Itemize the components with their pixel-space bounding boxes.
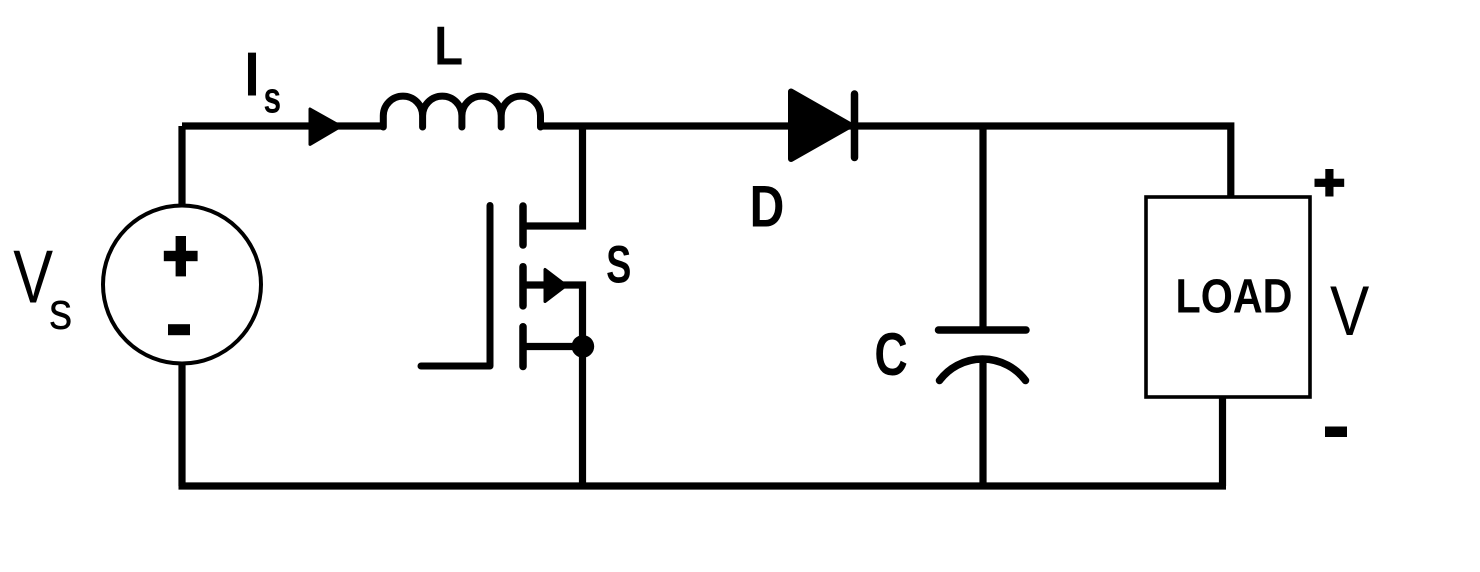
svg-text:S: S: [606, 234, 631, 294]
svg-text:I: I: [244, 41, 260, 109]
svg-text:s: s: [49, 281, 72, 340]
svg-text:V: V: [1330, 271, 1370, 350]
svg-text:L: L: [434, 15, 463, 76]
svg-text:C: C: [874, 322, 907, 388]
svg-text:D: D: [750, 174, 785, 240]
svg-text:LOAD: LOAD: [1176, 270, 1293, 324]
svg-text:V: V: [13, 235, 53, 319]
svg-text:s: s: [263, 75, 281, 123]
